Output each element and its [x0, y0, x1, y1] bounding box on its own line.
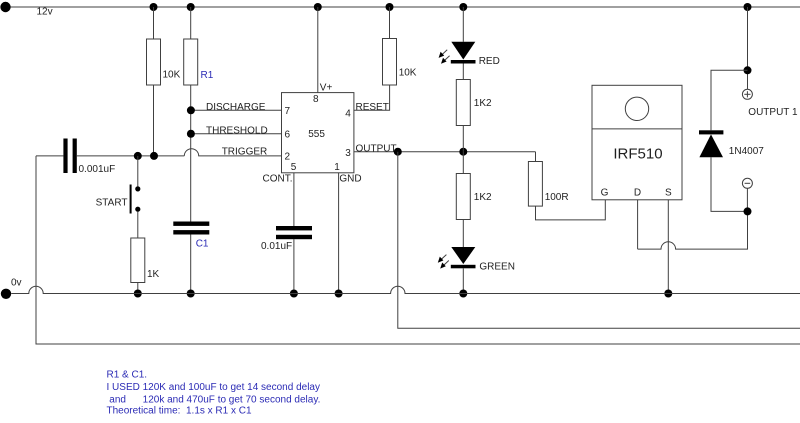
wire source lead to 0v rail [667, 200, 669, 294]
svg-text:4: 4 [345, 108, 351, 119]
wire 10K bottom lead to trigger line [153, 85, 155, 156]
svg-text:0v: 0v [11, 278, 22, 289]
wire 555 pin 5 lead [293, 173, 295, 226]
svg-text:8: 8 [313, 94, 319, 105]
svg-text:1K2: 1K2 [474, 98, 492, 109]
wire 100R bottom to gate [536, 200, 606, 220]
junction GREEN LED at 0v rail [459, 290, 467, 298]
wire 1K2 to output node [462, 126, 464, 152]
svg-text:12v: 12v [37, 7, 53, 18]
resistor 1K (trigger pull-down) [131, 238, 145, 283]
svg-text:RESET: RESET [356, 102, 389, 113]
junction drain node [744, 207, 752, 215]
svg-text:GND: GND [339, 174, 361, 185]
svg-text:TRIGGER: TRIGGER [222, 146, 268, 157]
junction diode branch [744, 66, 752, 74]
supply terminal 12v [0, 2, 10, 12]
capacitor C1 top plate [173, 222, 209, 226]
svg-text:R1: R1 [201, 70, 214, 81]
junction source at 0v rail [664, 290, 672, 298]
wire diode top branch [711, 70, 748, 130]
LED D1 RED cathode bar [451, 60, 476, 64]
LED D2 GREEN emission arrow 1 [438, 255, 447, 263]
wire diode bottom branch [711, 157, 748, 211]
wire 10K top lead [153, 7, 155, 39]
svg-text:RED: RED [479, 56, 500, 67]
LED D1 RED body [451, 42, 475, 60]
wire trigger middle segment [77, 155, 185, 157]
wire 1K bottom lead [137, 283, 139, 294]
LED D2 GREEN body [451, 247, 475, 264]
wire reset 10K top lead [389, 7, 391, 39]
wire trigger hop over R1-C1 line and to pin 2 [184, 149, 281, 156]
junction on 12v rail at 10K pull-up [150, 3, 158, 11]
wire left drop from trigger to bottom run [36, 156, 800, 344]
junction on 12v rail at output 1 branch [744, 3, 752, 11]
transistor Q1 IRF510 package outline [592, 85, 682, 200]
capacitor C1 bottom plate [173, 230, 209, 234]
junction on 12v rail at reset 10K [386, 3, 394, 11]
wire output node to 1K2 green [462, 152, 464, 174]
svg-text:7: 7 [285, 106, 291, 117]
junction threshold node [187, 130, 195, 138]
svg-text:5: 5 [291, 162, 297, 173]
diode D3 1N4007 cathode bar [699, 130, 723, 134]
wire R1 bottom lead down to C1 [190, 85, 192, 222]
svg-text:G: G [601, 187, 609, 198]
svg-text:IRF510: IRF510 [613, 146, 662, 163]
terminal output 1 minus [742, 178, 752, 188]
wire RED LED to 1K2 [462, 64, 464, 80]
transistor Q1 mounting hole [625, 97, 648, 120]
wire drain run with hop over source lead [638, 211, 748, 249]
wire 555 pin 8 to 12v rail [317, 7, 319, 93]
svg-text:3: 3 [345, 148, 351, 159]
svg-text:OUTPUT: OUTPUT [356, 143, 397, 154]
junction output at LED chain [459, 148, 467, 156]
diode D3 1N4007 body [699, 134, 723, 157]
wire output (pin 3) [354, 151, 536, 153]
wire R1 top lead [190, 7, 192, 39]
junction on 12v rail at R1 [187, 3, 195, 11]
svg-text:CONT.: CONT. [263, 174, 293, 185]
wire minus terminal to drain node [746, 188, 748, 211]
wire switch bottom lead [137, 212, 139, 238]
terminal output 1 plus [742, 89, 752, 99]
svg-text:0.001uF: 0.001uF [79, 164, 116, 175]
junction discharge node [187, 106, 195, 114]
wire 12v rail [11, 6, 800, 8]
svg-text:1K2: 1K2 [474, 192, 492, 203]
wire switch top lead [137, 156, 139, 187]
wire 12v rail down to output 1 plus [747, 7, 749, 89]
junction pin 1 at 0v rail [335, 290, 343, 298]
resistor 1K2 (red limit) [456, 80, 470, 126]
svg-text:OUTPUT 1: OUTPUT 1 [748, 107, 798, 118]
wire threshold (pin 6) [191, 133, 282, 135]
wire 1K2 to GREEN LED [462, 220, 464, 248]
junction 1K at 0v rail [134, 290, 142, 298]
svg-text:Theoretical time: 1.1s x R1 x: Theoretical time: 1.1s x R1 x C1 [107, 406, 252, 417]
wire GREEN LED to 0v rail [462, 268, 464, 293]
wire output down to 100R [535, 152, 537, 162]
junction C1 at 0v rail [187, 290, 195, 298]
op-amp/timer IC U1 555 body [282, 93, 354, 173]
switch START actuator bar [130, 185, 132, 214]
LED D2 GREEN emission arrow 2 [440, 261, 449, 269]
svg-text:10K: 10K [163, 69, 181, 80]
svg-text:10K: 10K [399, 67, 417, 78]
switch START contact bottom [135, 207, 140, 212]
svg-text:THRESHOLD: THRESHOLD [206, 126, 268, 137]
resistor 100R (gate) [528, 162, 542, 207]
svg-text:2: 2 [285, 151, 291, 162]
junction on 12v rail at RED LED [459, 3, 467, 11]
wire trigger left segment to 0.001uF [36, 155, 63, 157]
wire RED LED top lead [462, 7, 464, 42]
svg-text:555: 555 [308, 129, 325, 140]
junction output at drop wire [394, 148, 402, 156]
svg-text:0.01uF: 0.01uF [261, 241, 292, 252]
svg-text:S: S [665, 187, 672, 198]
svg-text:D: D [634, 187, 641, 198]
junction on 12v rail at 555 pin 8 [314, 3, 322, 11]
junction trigger at start switch [134, 152, 142, 160]
LED D1 RED emission arrow 2 [441, 56, 450, 64]
capacitor 0.01uF top plate [276, 226, 312, 230]
capacitor 0.01uF bottom plate [276, 235, 312, 239]
svg-text:1N4007: 1N4007 [729, 146, 764, 157]
resistor 1K2 (green limit) [456, 174, 470, 220]
ground terminal 0v [1, 289, 11, 299]
wire discharge (pin 7) [191, 109, 282, 111]
wire C1 bottom lead [190, 235, 192, 294]
switch START contact top [135, 186, 140, 191]
svg-text:GREEN: GREEN [479, 262, 515, 273]
transistor Q1 tab divider [592, 128, 682, 130]
svg-text:I USED 120K and 100uF to get 1: I USED 120K and 100uF to get 14 second d… [107, 382, 320, 393]
svg-text:6: 6 [285, 129, 291, 140]
svg-text:R1 & C1.: R1 & C1. [107, 370, 148, 381]
wire output drop below 0v rail [398, 152, 800, 329]
svg-text:1: 1 [334, 162, 340, 173]
svg-text:DISCHARGE: DISCHARGE [206, 102, 266, 113]
svg-text:100R: 100R [545, 192, 569, 203]
wire drain lead down [637, 200, 639, 249]
wire 0.01uF bottom lead [293, 239, 295, 293]
LED D2 GREEN cathode bar [451, 265, 476, 269]
junction trigger at 10K pull-up [150, 152, 158, 160]
capacitor 0.001uF left plate [63, 139, 67, 174]
wire 555 pin 1 to 0v rail [338, 173, 340, 294]
svg-text:START: START [96, 198, 128, 209]
resistor 10K (reset pull-up) [383, 39, 397, 86]
svg-text:V+: V+ [320, 82, 333, 93]
svg-text:1K: 1K [147, 269, 160, 280]
resistor 10K (trigger pull-up) [147, 39, 161, 85]
svg-text:C1: C1 [196, 239, 209, 250]
wire reset (pin 4) up to 10K [354, 85, 390, 110]
LED D1 RED emission arrow 1 [439, 50, 448, 58]
capacitor 0.001uF right plate [73, 139, 77, 174]
wire 0v rail with hops [11, 286, 800, 293]
resistor R1 (timing) [184, 39, 198, 85]
junction 0.01uF at 0v rail [290, 290, 298, 298]
svg-text:and 120k and 470uF to get: and 120k and 470uF to get 70 second dela… [107, 394, 321, 405]
